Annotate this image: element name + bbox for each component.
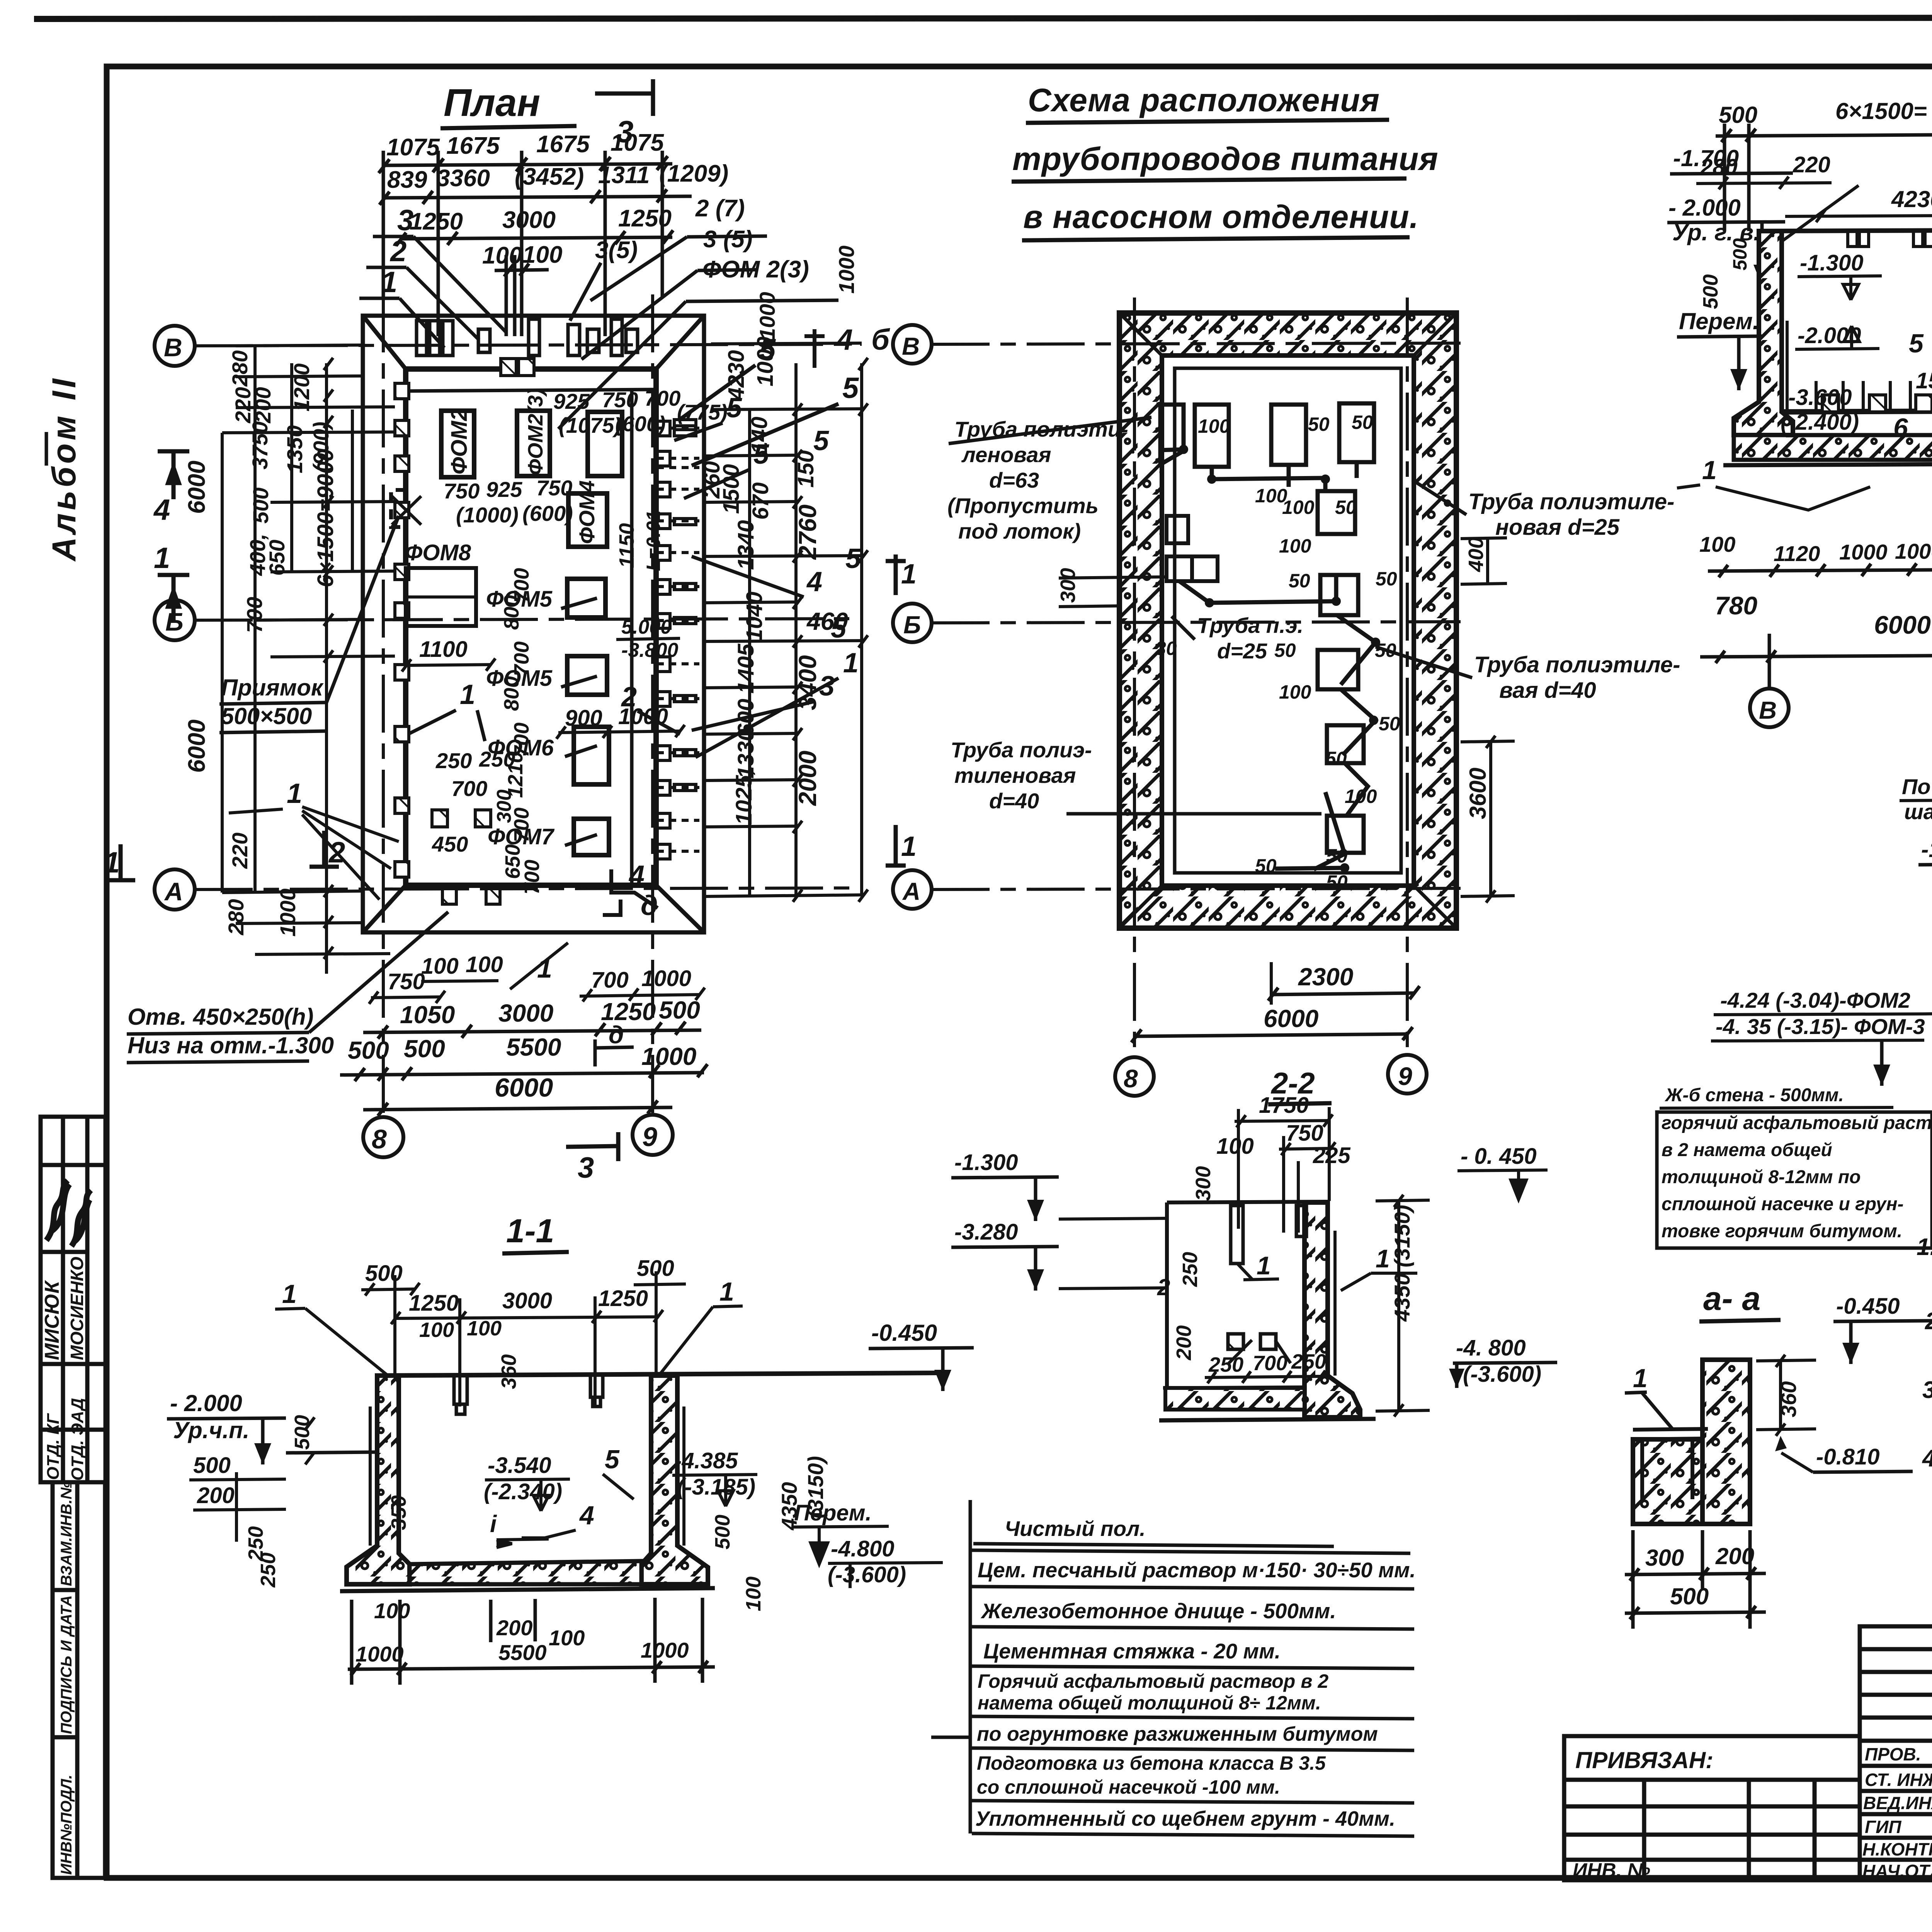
svg-text:3: 3 [397,204,413,237]
svg-text:780: 780 [1715,591,1757,620]
label ПОДПИСЬ И ДАТА rotated [58,1595,75,1734]
svg-text:50: 50 [1308,413,1330,435]
equipment ФОМ2 [441,408,474,477]
svg-text:2: 2 [389,235,406,268]
svg-text:50: 50 [1274,639,1296,661]
svg-text:280: 280 [224,899,248,935]
svg-text:1200: 1200 [289,363,314,412]
svg-text:700: 700 [645,386,680,410]
а-а step hatched [1633,1439,1702,1524]
right rotated dim labels [699,337,848,825]
3-3 leader 1 bottom-left [1677,456,1870,510]
dept ОТД. КГ rotated [44,1413,63,1480]
2-2 level -1.300 left [951,1150,1167,1221]
svg-text:(600): (600) [522,501,573,526]
labels 5 4 3 1 right column leaders [726,393,861,702]
floor layers list [975,1517,1416,1830]
plan bottom chain 500 5500 1000 + д mark [348,1033,696,1070]
equipment ФОМ6 [488,727,609,784]
svg-text:1: 1 [287,778,302,809]
slope mark bottom-right of plan interior [603,869,658,915]
leader text Труба полиэтиленовая d=40 (left) [951,738,1321,814]
svg-text:3: 3 [578,1151,594,1184]
svg-text:(1000): (1000) [456,503,519,527]
svg-text:200: 200 [1172,1325,1196,1361]
svg-text:НАЧ.ОТД: НАЧ.ОТД [1862,1861,1932,1881]
svg-text:50: 50 [1326,845,1348,867]
svg-text:План: План [444,81,540,124]
1-1 left wall hatched [347,1376,410,1584]
svg-text:1040: 1040 [742,592,767,641]
svg-text:По сеч. 3-3: По сеч. 3-3 [1902,774,1932,799]
svg-text:670: 670 [748,482,773,520]
pipe connection lines [1159,448,1376,869]
4-4 label По сеч 3-3 шаг 1.500 [1900,740,1932,850]
svg-text:-3.600: -3.600 [1788,385,1852,410]
pump boxes row 1 [1195,403,1374,467]
svg-text:-4.800: -4.800 [831,1536,894,1561]
svg-text:(Пропустить: (Пропустить [947,493,1099,518]
svg-text:800: 800 [500,595,523,630]
3-3 left wall hatched [1734,231,1793,435]
axis circle 8 (center plan) [1115,1057,1154,1096]
svg-text:СТ. ИНЖ.: СТ. ИНЖ. [1865,1770,1932,1790]
svg-text:Н.КОНТР: Н.КОНТР [1862,1839,1932,1859]
svg-text:100: 100 [419,1318,454,1342]
svg-text:(-3.600): (-3.600) [828,1562,906,1587]
svg-text:50: 50 [1255,855,1277,877]
svg-text:1000: 1000 [641,1043,696,1070]
svg-text:Перем.: Перем. [1679,308,1759,334]
section mark 1 bottom-left [106,844,135,880]
svg-text:500: 500 [659,996,700,1024]
svg-text:МИСЮК: МИСЮК [41,1280,63,1360]
axis circle В [155,326,195,366]
svg-text:-4. 800: -4. 800 [1456,1335,1526,1361]
svg-text:толщиной 8-12мм по: толщиной 8-12мм по [1662,1167,1861,1187]
vertical label Альбом II [46,376,83,562]
svg-text:5.000: 5.000 [621,616,672,638]
1-1 inner lines (waterproofing) [370,1406,684,1546]
svg-text:Уплотненный со щебнем грунт -: Уплотненный со щебнем грунт - 40мм. [975,1807,1395,1830]
svg-text:1: 1 [901,831,917,862]
svg-text:- 0. 450: - 0. 450 [1461,1144,1537,1169]
svg-text:1050: 1050 [400,1001,455,1029]
small dim labels 50/100 [1155,412,1400,893]
name МИСЮК rotated [41,1280,63,1360]
svg-text:1: 1 [1702,456,1717,485]
svg-text:6000: 6000 [1264,1005,1318,1032]
svg-text:4: 4 [628,860,645,891]
svg-text:50: 50 [1289,570,1310,592]
svg-text:в насосном отделении.: в насосном отделении. [1023,199,1419,235]
text Приямок 500×500 [219,516,399,733]
svg-text:по огрунтовке разжиженным биту: по огрунтовке разжиженным битумом [977,1723,1378,1745]
inner dim labels row (925 750 700 (775)) [553,386,728,437]
svg-text:-0.810: -0.810 [1816,1444,1879,1469]
svg-text:со сплошной насечкой -100 м: со сплошной насечкой -100 мм. [977,1776,1280,1798]
svg-text:Ур.ч.п.: Ур.ч.п. [173,1417,249,1443]
2-2 top line + left edge [1167,1202,1335,1388]
svg-text:100: 100 [742,1577,765,1611]
svg-text:100: 100 [1279,681,1311,703]
svg-text:1: 1 [154,542,170,575]
svg-text:тиленовая: тиленовая [954,763,1076,787]
svg-text:100: 100 [467,1317,502,1340]
svg-text:100: 100 [466,952,503,977]
svg-text:Труба полиэтиле-: Труба полиэтиле- [1468,489,1674,514]
svg-text:Горячий асфальтовый раствор в: Горячий асфальтовый раствор в 2 [978,1670,1328,1692]
svg-text:1000: 1000 [276,888,300,937]
svg-text:1: 1 [719,1277,734,1306]
svg-text:750: 750 [602,388,638,412]
svg-text:новая d=25: новая d=25 [1495,515,1620,540]
axis line 8 vertical [382,294,385,1117]
svg-text:ИНВ. №: ИНВ. № [1573,1859,1650,1882]
svg-text:намета общей толщиной 8÷ 12мм.: намета общей толщиной 8÷ 12мм. [978,1692,1321,1714]
svg-text:(3150): (3150) [803,1456,828,1519]
svg-text:ОТД. ЭАД: ОТД. ЭАД [68,1398,87,1481]
1-1 level -2.000 Ур.ч.п. [167,1390,377,1464]
svg-text:50: 50 [1325,748,1347,769]
svg-text:- 2.000: - 2.000 [170,1390,242,1416]
pump boxes column [1318,491,1364,853]
а-а corner wall hatched [1702,1360,1750,1524]
left stamp table lower [53,1482,105,1878]
svg-text:100: 100 [1282,497,1315,518]
label 2-2 [1268,1066,1332,1104]
main heading Схема расположения трубопроводов питания в насосном отделении [1012,82,1439,240]
а-а step top lines [1633,1429,1708,1499]
axis circle Б (center plan) [893,604,932,642]
svg-text:3 (5): 3 (5) [703,226,752,253]
svg-text:А: А [164,877,183,906]
left stamp table upper [41,1117,105,1482]
svg-text:1120: 1120 [1774,541,1820,566]
svg-text:сплошной насечке и грун-: сплошной насечке и грун- [1662,1194,1903,1214]
svg-text:-1.700: -1.700 [1673,145,1739,171]
svg-text:100: 100 [1198,415,1230,437]
PLAN (top-left) title План [440,81,577,128]
svg-text:700: 700 [520,860,544,895]
3-3 Перем. label [1677,308,1762,390]
axis line А [195,888,862,889]
top wall hatched squares row [501,359,534,376]
svg-text:(600): (600) [615,412,666,436]
svg-text:В: В [164,333,182,362]
svg-text:5: 5 [842,372,859,405]
svg-text:650: 650 [265,540,289,576]
rotated 300 label left [1056,568,1167,607]
svg-text:-0.450: -0.450 [871,1320,937,1346]
svg-text:Железобетонное днище - 500мм: Железобетонное днище - 500мм. [980,1599,1336,1623]
equipment box top-right [588,412,622,476]
svg-text:Схема расположения: Схема расположения [1028,82,1380,118]
TITLE BLOCK: ledger grid [1860,1626,1932,1880]
axis circle Б [155,600,195,640]
svg-text:500: 500 [1699,274,1722,309]
svg-text:100: 100 [1279,535,1311,557]
svg-text:280: 280 [228,350,252,387]
svg-text:Подготовка из бетона класса В: Подготовка из бетона класса В 3.5 [977,1752,1326,1774]
level -1.700 left [1670,145,1793,174]
svg-text:4: 4 [579,1501,594,1530]
svg-text:3600: 3600 [1465,768,1491,819]
svg-text:1: 1 [282,1279,297,1309]
svg-text:1: 1 [1633,1364,1648,1393]
svg-text:1350: 1350 [282,425,307,473]
svg-text:6000: 6000 [495,1073,553,1102]
svg-text:1500: 1500 [719,464,744,514]
svg-text:1075: 1075 [386,134,440,161]
svg-text:1000: 1000 [355,1642,404,1666]
svg-text:1-1: 1-1 [506,1213,554,1250]
svg-text:б: б [871,323,890,356]
axis circle А (center plan) [893,870,932,909]
svg-text:4350 (3150): 4350 (3150) [1390,1205,1414,1322]
3-3 section top line [1759,229,1932,412]
svg-text:9: 9 [642,1122,657,1152]
1-1 dim 500 rot left [291,1415,315,1464]
3-3 top anchor bolts [1848,216,1932,247]
svg-text:В: В [1759,696,1777,724]
svg-text:3360: 3360 [437,165,490,192]
svg-text:3000: 3000 [502,1288,552,1313]
right dim 400 [1461,537,1507,584]
leader text Труба полиэтиленовая d=40 (right) [1376,647,1680,703]
svg-text:d=40: d=40 [989,789,1039,813]
svg-text:1340: 1340 [733,520,759,570]
TITLE BLOCK: привязан table [1564,1736,1860,1880]
svg-text:1311: 1311 [598,162,650,189]
top wall anchor bolts [417,319,638,355]
svg-text:100: 100 [482,242,522,269]
rotated dims 700 800 column [500,568,544,895]
label 4 д bottom [628,860,658,921]
svg-text:1250: 1250 [618,205,672,232]
svg-text:100: 100 [421,954,459,979]
2-2 level -4.800 right [1449,1335,1557,1388]
section mark 1 left [158,575,189,623]
svg-text:300: 300 [493,789,515,823]
leader text Труба полиэтиленовая d=25 (right) [1412,480,1674,540]
svg-text:в 2 намета общей: в 2 намета общей [1662,1140,1832,1160]
axis circle 9 [633,1115,673,1155]
svg-text:3000: 3000 [498,999,553,1027]
1-1 top dims 500 500 1250 3000 1250 [365,1256,674,1316]
svg-text:250: 250 [479,747,515,771]
svg-text:под лоток): под лоток) [958,519,1081,543]
svg-text:1250: 1250 [410,208,463,235]
svg-text:ПОДПИСЬ И ДАТА: ПОДПИСЬ И ДАТА [58,1595,75,1734]
axis line Б [195,619,862,620]
svg-text:50: 50 [1379,713,1400,735]
left rotated dim labels [184,350,338,937]
leader text Труба полиэтиленовая d=63 [947,417,1151,543]
svg-text:4230: 4230 [1891,186,1932,212]
svg-text:700: 700 [242,597,267,633]
svg-text:3. Расход на полиэтиленовые: 3. Расход на полиэтиленовые трубы см. че… [1922,1377,1932,1403]
svg-text:Труба полиэ-: Труба полиэ- [951,738,1092,762]
svg-text:ПРОВ.: ПРОВ. [1865,1744,1921,1764]
svg-text:500: 500 [248,488,273,524]
svg-text:(1075): (1075) [559,413,621,437]
2-2 inside dims 250 200 250 700 250 [1172,1252,1326,1376]
svg-text:500: 500 [291,1415,314,1450]
svg-text:Труба полиэтиле-: Труба полиэтиле- [1474,652,1680,677]
right wall anchor plates with dashed ties [657,420,699,859]
1-1 inside labels [193,1445,906,1588]
svg-text:d=25: d=25 [1217,639,1267,663]
svg-text:900: 900 [565,706,602,731]
svg-text:5500: 5500 [506,1033,561,1061]
а-а bottom dims 300 200 500 [1645,1543,1754,1609]
svg-text:100: 100 [374,1599,410,1623]
svg-text:4: 4 [836,323,853,356]
SECTION 2-2 top dims 1750 750 100 225 [1192,1093,1537,1201]
svg-text:1250: 1250 [409,1291,459,1316]
plan bottom dims row 750 100 100 1 700 1000 [388,952,691,994]
svg-text:6000: 6000 [184,461,210,514]
axis dash lines through center plan [932,298,1461,1057]
svg-text:1000: 1000 [641,966,691,991]
label 1 with fan leaders bottom-left [410,679,485,741]
plan dimension row3 1250 3000 1250 + labels 2(7) 3(5) [396,230,673,246]
SECTION 1-1 label [502,1213,569,1253]
svg-text:4350: 4350 [777,1482,801,1531]
svg-text:Труба п.э.: Труба п.э. [1197,613,1303,638]
svg-text:ОТД. КГ: ОТД. КГ [44,1413,63,1480]
leader 1 fan left [229,778,399,900]
svg-text:д: д [609,1021,624,1049]
svg-text:горячий асфальтовый раствор: горячий асфальтовый раствор [1662,1113,1932,1133]
svg-text:750: 750 [1286,1121,1323,1146]
svg-text:-4. 35 (-3.15)- ФОМ-3: -4. 35 (-3.15)- ФОМ-3 [1716,1014,1925,1039]
3-3 dim row 280 220 100 100 220 280 [1700,146,1932,180]
svg-text:8: 8 [372,1124,387,1154]
svg-text:50: 50 [1376,568,1397,590]
svg-text:150: 150 [793,450,818,488]
1-1 bottom slab hatched [340,1561,715,1591]
svg-text:А: А [902,878,920,905]
svg-text:2000: 2000 [794,751,821,806]
svg-text:Альбом II: Альбом II [46,376,83,562]
svg-text:220: 220 [228,833,252,869]
svg-text:ФОМ2: ФОМ2 [447,408,472,474]
dim 900 1000 row [556,704,685,739]
CENTER PLAN walls (hatched) [1119,313,1456,928]
svg-text:100: 100 [1699,532,1735,556]
svg-text:2300: 2300 [1298,963,1353,991]
svg-text:Цементная стяжка - 20 мм.: Цементная стяжка - 20 мм. [983,1639,1281,1663]
personnel names [1862,1744,1932,1881]
axis circle 8 [363,1117,403,1157]
svg-text:1: 1 [1376,1244,1390,1273]
svg-text:ФОМ2(3): ФОМ2(3) [524,388,547,475]
inlet pipe corner d63 [1156,405,1184,464]
svg-text:8: 8 [1124,1064,1138,1093]
svg-text:(1209): (1209) [659,160,728,187]
svg-text:леновая: леновая [961,442,1051,467]
svg-text:d=63: d=63 [989,468,1039,492]
svg-text:1675: 1675 [536,131,590,158]
svg-text:50: 50 [1352,412,1373,433]
svg-text:ГИП: ГИП [1865,1817,1901,1837]
svg-text:1075: 1075 [611,129,664,156]
section mark 3 (top) [595,79,653,116]
svg-text:1025,: 1025, [731,769,757,825]
1-1 right wall hatched [641,1376,708,1584]
label ИНВ№ПОДЛ. rotated [58,1775,75,1875]
svg-text:250: 250 [1291,1350,1326,1373]
axis line В [195,344,862,346]
svg-text:Отв. 450×250(h): Отв. 450×250(h) [128,1004,313,1030]
а-а dim 360 [1756,1355,1816,1436]
svg-text:5500: 5500 [498,1640,547,1665]
svg-text:Ж-б стена - 500мм.: Ж-б стена - 500мм. [1664,1085,1844,1105]
3-3 top dim chain 500 6x1500=9000 2560 500 [1719,98,1932,135]
3-3 axis circle В [1750,689,1789,727]
svg-text:1000: 1000 [641,1638,689,1662]
right top labels 5 Т4 б 5 [759,323,890,405]
svg-text:4: 4 [806,566,822,597]
svg-text:4230: 4230 [724,350,749,400]
dims 250 250 700 450 bottom-left interior [432,747,515,856]
svg-text:3750: 3750 [248,421,272,469]
svg-text:(3452): (3452) [515,163,584,190]
svg-text:-3.800: -3.800 [621,639,679,662]
svg-text:1000: 1000 [834,245,859,294]
svg-text:-3.280: -3.280 [954,1219,1018,1245]
axis line 9 vertical [651,294,654,1117]
svg-text:360: 360 [497,1354,520,1389]
svg-text:1: 1 [901,559,917,590]
label 2 with leader mid-plan [621,682,680,734]
1-1 leaders 1 1 [282,1277,734,1309]
svg-text:1: 1 [104,846,120,879]
svg-text:6×1500=9000: 6×1500=9000 [313,449,338,587]
svg-text:ПРИВЯЗАН:: ПРИВЯЗАН: [1575,1747,1713,1773]
svg-text:100: 100 [549,1626,585,1650]
svg-text:700: 700 [510,641,533,676]
svg-text:д: д [641,890,658,921]
svg-text:ВЕД.ИНЖ.: ВЕД.ИНЖ. [1863,1793,1932,1813]
svg-text:460: 460 [806,607,848,635]
svg-text:250: 250 [435,748,472,773]
svg-text:500: 500 [404,1035,445,1063]
svg-text:100: 100 [1216,1134,1254,1159]
svg-text:1: 1 [1257,1251,1271,1280]
axis circle 9 (center plan) [1388,1055,1427,1094]
leader text Труба п.э. d=25 [1172,613,1303,663]
svg-text:Чистый пол.: Чистый пол. [1005,1517,1146,1541]
svg-text:2760: 2760 [794,505,821,560]
svg-text:350: 350 [387,1495,410,1530]
svg-text:450: 450 [432,832,468,856]
svg-text:500: 500 [348,1036,389,1064]
svg-text:300: 300 [1192,1166,1215,1201]
dim 1100 under ФОМ8 [402,637,495,672]
left wall boxes [1167,516,1218,581]
а-а leader 1 [1625,1364,1673,1430]
svg-text:5: 5 [1909,329,1924,358]
svg-text:30: 30 [1155,638,1177,659]
equipment ФОМ5 lower [486,656,607,695]
svg-text:ФОМ8: ФОМ8 [405,540,471,565]
rotated dims near ФОМ4: 1150 L=0.01 [615,510,664,571]
inner dim labels row2 750 925 750 + (1000)(600) [444,476,573,527]
svg-text:1100: 1100 [419,637,468,662]
